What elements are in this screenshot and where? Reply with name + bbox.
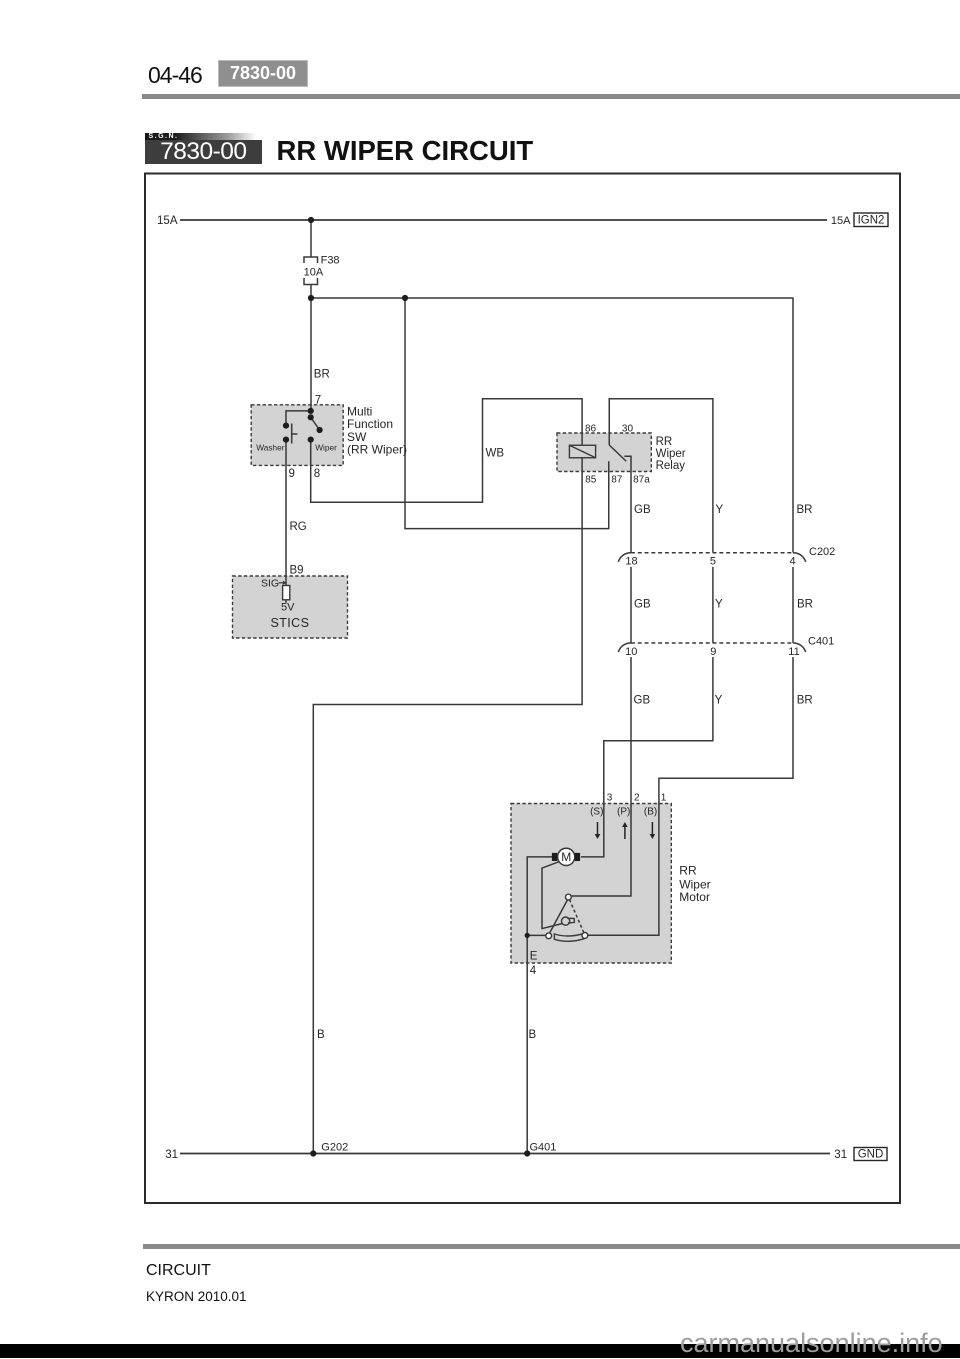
svg-text:B: B — [317, 1029, 325, 1041]
svg-text:GB: GB — [634, 504, 651, 516]
svg-text:Wiper: Wiper — [656, 448, 686, 460]
svg-text:1: 1 — [661, 792, 667, 803]
svg-text:SIG: SIG — [261, 578, 279, 590]
svg-text:B: B — [529, 1029, 537, 1041]
svg-text:RR: RR — [656, 436, 673, 448]
svg-text:BR: BR — [797, 599, 813, 611]
svg-text:(P): (P) — [617, 807, 630, 818]
svg-text:5: 5 — [710, 556, 716, 568]
svg-text:(S): (S) — [590, 807, 603, 818]
svg-text:STICS: STICS — [271, 616, 310, 630]
svg-text:9: 9 — [289, 468, 295, 480]
svg-text:Relay: Relay — [656, 460, 686, 472]
svg-text:4: 4 — [790, 556, 796, 568]
svg-text:85: 85 — [585, 475, 597, 486]
svg-text:Motor: Motor — [679, 890, 710, 904]
svg-text:9: 9 — [710, 646, 716, 658]
svg-text:GND: GND — [858, 1149, 884, 1161]
svg-text:3: 3 — [607, 792, 613, 803]
svg-text:Y: Y — [715, 695, 723, 707]
svg-text:31: 31 — [834, 1149, 847, 1161]
svg-text:RG: RG — [290, 521, 307, 533]
svg-text:BR: BR — [797, 695, 813, 707]
svg-text:31: 31 — [165, 1149, 178, 1161]
svg-text:4: 4 — [530, 965, 537, 977]
svg-text:11: 11 — [788, 646, 799, 658]
svg-text:(RR Wiper): (RR Wiper) — [347, 443, 407, 457]
svg-text:87a: 87a — [633, 475, 650, 486]
svg-text:IGN2: IGN2 — [858, 215, 885, 227]
svg-text:86: 86 — [585, 424, 597, 435]
svg-text:G401: G401 — [530, 1142, 557, 1154]
svg-text:GB: GB — [634, 599, 651, 611]
svg-text:87: 87 — [611, 475, 623, 486]
svg-text:10: 10 — [625, 646, 637, 658]
svg-text:Washer: Washer — [256, 443, 285, 453]
svg-text:15A: 15A — [831, 215, 851, 227]
svg-text:BR: BR — [314, 369, 330, 381]
svg-text:RR: RR — [679, 864, 697, 878]
svg-text:2: 2 — [634, 792, 640, 803]
svg-text:E: E — [530, 951, 538, 963]
svg-text:15A: 15A — [157, 215, 178, 227]
svg-text:Wiper: Wiper — [315, 443, 337, 453]
svg-text:18: 18 — [625, 556, 637, 568]
svg-text:10A: 10A — [304, 267, 324, 279]
svg-text:7: 7 — [315, 395, 321, 407]
svg-text:B9: B9 — [290, 565, 304, 577]
svg-text:M: M — [561, 850, 571, 864]
svg-text:8: 8 — [314, 468, 320, 480]
svg-text:G202: G202 — [321, 1142, 348, 1154]
svg-text:C202: C202 — [809, 546, 835, 558]
svg-text:C401: C401 — [808, 636, 834, 648]
svg-text:30: 30 — [622, 424, 634, 435]
svg-text:5V: 5V — [281, 602, 295, 614]
svg-text:Y: Y — [715, 599, 723, 611]
svg-text:WB: WB — [486, 448, 505, 460]
svg-text:BR: BR — [797, 504, 813, 516]
svg-text:Y: Y — [716, 504, 724, 516]
svg-text:GB: GB — [634, 695, 651, 707]
svg-text:F38: F38 — [321, 255, 340, 267]
svg-text:(B): (B) — [644, 807, 657, 818]
